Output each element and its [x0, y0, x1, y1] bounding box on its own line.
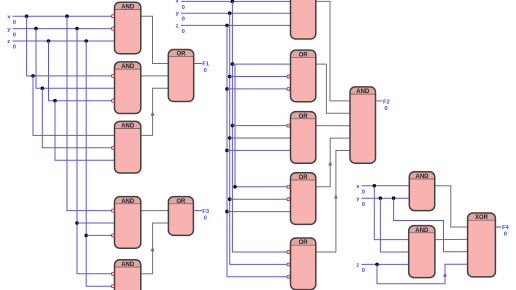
arrow on U5 output riser: [151, 247, 155, 251]
pin U12 in1: [287, 251, 290, 254]
junction y right 2: [392, 196, 396, 200]
or gate U12: [291, 238, 316, 290]
pin U3 in2: [111, 146, 114, 149]
wire x drop1b to U3 in1: [33, 76, 115, 135]
wire y route to U16 in3: [394, 198, 468, 252]
or gate U10: [291, 112, 316, 164]
svg-text:AND: AND: [121, 64, 135, 70]
pin U1 in2: [111, 27, 114, 30]
junction tap U9 in3: [225, 87, 229, 91]
arrow on U3 output riser: [151, 111, 155, 115]
wire y to U1 in2: [13, 28, 115, 30]
junction mid z: [225, 24, 229, 28]
pin U5 in1: [111, 272, 114, 275]
wire tap U9 in3: [227, 88, 291, 90]
wire x to U1 in1: [13, 15, 115, 17]
junction x tap1b: [31, 74, 35, 78]
svg-text:OR: OR: [299, 52, 309, 58]
wire z to U1 in3: [13, 40, 115, 42]
bus line mid x2: [235, 64, 291, 187]
svg-text:0: 0: [204, 68, 207, 74]
svg-text:0: 0: [13, 20, 16, 26]
svg-text:OR: OR: [299, 114, 309, 120]
wire U8 out to U13 in1: [316, 1, 350, 101]
wire U10 out to U13 in3: [316, 125, 350, 127]
pin U11 in1: [287, 185, 290, 188]
pin U4 in1: [111, 209, 114, 212]
and gate U15: [409, 226, 435, 278]
svg-text:F1: F1: [202, 62, 210, 68]
wire y to U14 in2: [362, 197, 410, 199]
junction z tap1: [47, 39, 51, 43]
junction tap U10 in2: [228, 136, 232, 140]
and gate U14: [409, 172, 434, 211]
wire x drop to U15 in1: [374, 186, 408, 240]
wire x drop2 to U4 in1: [67, 16, 115, 210]
junction x tap2: [65, 14, 69, 18]
arrow on U12 output riser: [334, 194, 338, 198]
pin U12 in2: [287, 263, 290, 266]
junction y right 1: [379, 196, 383, 200]
svg-text:0: 0: [362, 202, 365, 208]
svg-text:z: z: [356, 263, 359, 269]
wire U1 out to U6 in1: [141, 16, 169, 63]
or gate U9: [291, 50, 316, 102]
and gate U1: [115, 2, 141, 54]
junction y tap2: [75, 27, 79, 31]
wire tap U10 in3: [227, 149, 291, 151]
and gate U13: [350, 87, 376, 163]
junction mid x: [231, 0, 235, 3]
bus line mid y: [230, 13, 291, 264]
or gate U8 (clipped top): [291, 0, 316, 39]
arrow on z riser: [443, 272, 447, 276]
and gate U4: [115, 197, 141, 249]
arrow on U11 output riser: [328, 161, 332, 165]
wire y branch to U4 in2: [77, 222, 115, 224]
svg-text:z: z: [176, 23, 179, 29]
wire z drop2: [86, 41, 114, 286]
svg-text:F4: F4: [502, 225, 510, 231]
svg-text:OR: OR: [299, 240, 309, 246]
svg-text:0: 0: [504, 232, 507, 238]
wire y drop1 to U2 in2: [36, 29, 115, 89]
and gate U2: [115, 62, 141, 114]
svg-text:0: 0: [13, 32, 16, 38]
or gate U6: [168, 50, 193, 102]
pin U11 in2: [287, 198, 290, 201]
junction tap U10 in1: [231, 124, 235, 128]
and gate U3: [115, 121, 141, 173]
svg-text:XOR: XOR: [475, 215, 489, 221]
svg-text:AND: AND: [121, 4, 135, 10]
svg-text:0: 0: [182, 17, 185, 23]
wire U13 out to F2: [376, 100, 383, 102]
wire z branch to U4 in3: [86, 234, 114, 236]
or gate U7: [168, 197, 193, 236]
junction y tap1b: [41, 87, 45, 91]
junction z tap1b: [53, 99, 57, 103]
junction z tap2b: [84, 234, 88, 238]
junction tap U9 in1: [231, 62, 235, 66]
svg-text:OR: OR: [176, 199, 186, 205]
wire z to U8 in3: [181, 24, 291, 26]
wire U12 out to U13 in5: [316, 151, 350, 253]
pin U2 in1: [111, 74, 114, 77]
wire tap U10 in2: [230, 137, 291, 139]
wire tap U9 in2: [230, 76, 291, 78]
bus line mid x: [232, 1, 290, 252]
wire U11 out to U13 in4: [316, 138, 350, 187]
pin U1 in1: [111, 15, 114, 18]
wire U6 out to F1: [194, 63, 202, 65]
wire z to U15 in3: [362, 263, 409, 265]
svg-text:0: 0: [182, 29, 185, 35]
wire U3 out to U6 in3: [141, 88, 169, 135]
pin U2 in3: [111, 99, 114, 102]
junction tap U11 in3: [225, 210, 229, 214]
wire y to U8 in2: [181, 12, 291, 14]
wire U16 out to F4: [495, 226, 501, 228]
pin U4 in3: [111, 234, 114, 237]
wire y drop to U15 in2: [380, 198, 408, 252]
wire U14 out to U16 in1: [435, 186, 468, 227]
pin U10 in1: [287, 124, 290, 127]
wire y drop2: [77, 29, 115, 274]
wire x drop1 to U2 in1: [27, 16, 115, 76]
wire x to U8 in1: [181, 0, 291, 2]
wire tap U11 in2: [230, 198, 291, 200]
wire U4 out to U7 in1: [141, 210, 169, 212]
pin U12 in3: [287, 275, 290, 278]
junction tap U11 in2: [228, 197, 232, 201]
junction y tap1: [34, 27, 38, 31]
wire z drop1b to U3 in3: [55, 101, 115, 161]
junction y tap2b: [75, 221, 79, 225]
svg-text:AND: AND: [121, 124, 135, 130]
junction x tap1: [25, 14, 29, 18]
svg-text:z: z: [7, 39, 10, 45]
wire tap U11 in3: [227, 211, 291, 213]
junction tap U11 in1: [233, 185, 237, 189]
wire y drop1b to U3 in2: [42, 88, 114, 148]
svg-text:0: 0: [13, 45, 16, 51]
wire U9 out to U13 in2: [316, 64, 350, 113]
pin U5 in2: [111, 285, 114, 288]
junction tap U10 in3: [225, 149, 229, 153]
wire U2 out to U6 in2: [141, 75, 169, 77]
wire z drop1 to U2 in3: [49, 41, 115, 101]
junction mid y: [228, 11, 232, 15]
junction tap U9 in2: [228, 75, 232, 79]
pin U9 in3: [287, 87, 290, 90]
or gate U11: [291, 173, 316, 225]
svg-text:0: 0: [362, 268, 365, 274]
bus line mid z: [227, 25, 291, 276]
wire U15 out to U16 in2: [435, 238, 468, 240]
wire U5 out to U7 in2: [141, 223, 169, 274]
svg-text:AND: AND: [415, 228, 429, 234]
svg-text:OR: OR: [177, 52, 187, 58]
wire tap U9 in1: [232, 63, 290, 65]
svg-text:0: 0: [362, 189, 365, 195]
wire U7 out to F3: [193, 210, 202, 212]
svg-text:F3: F3: [202, 209, 210, 215]
svg-text:AND: AND: [121, 199, 135, 205]
svg-text:AND: AND: [356, 89, 370, 95]
junction x right: [373, 184, 377, 188]
svg-text:OR: OR: [299, 175, 309, 181]
svg-text:F2: F2: [383, 100, 390, 106]
svg-text:AND: AND: [121, 262, 135, 268]
svg-text:0: 0: [204, 215, 207, 221]
and gate U5: [115, 260, 141, 290]
xor gate U16: [468, 213, 496, 277]
svg-text:0: 0: [384, 106, 387, 112]
wire tap U10 in1: [232, 125, 290, 127]
junction z tap2: [84, 39, 88, 43]
pin U9 in2: [287, 75, 290, 78]
junction z right: [375, 263, 379, 267]
svg-text:AND: AND: [416, 174, 430, 180]
svg-text:0: 0: [182, 5, 185, 11]
wire z route to U16 in4: [377, 264, 468, 284]
wire x to U14 in1: [362, 185, 410, 187]
